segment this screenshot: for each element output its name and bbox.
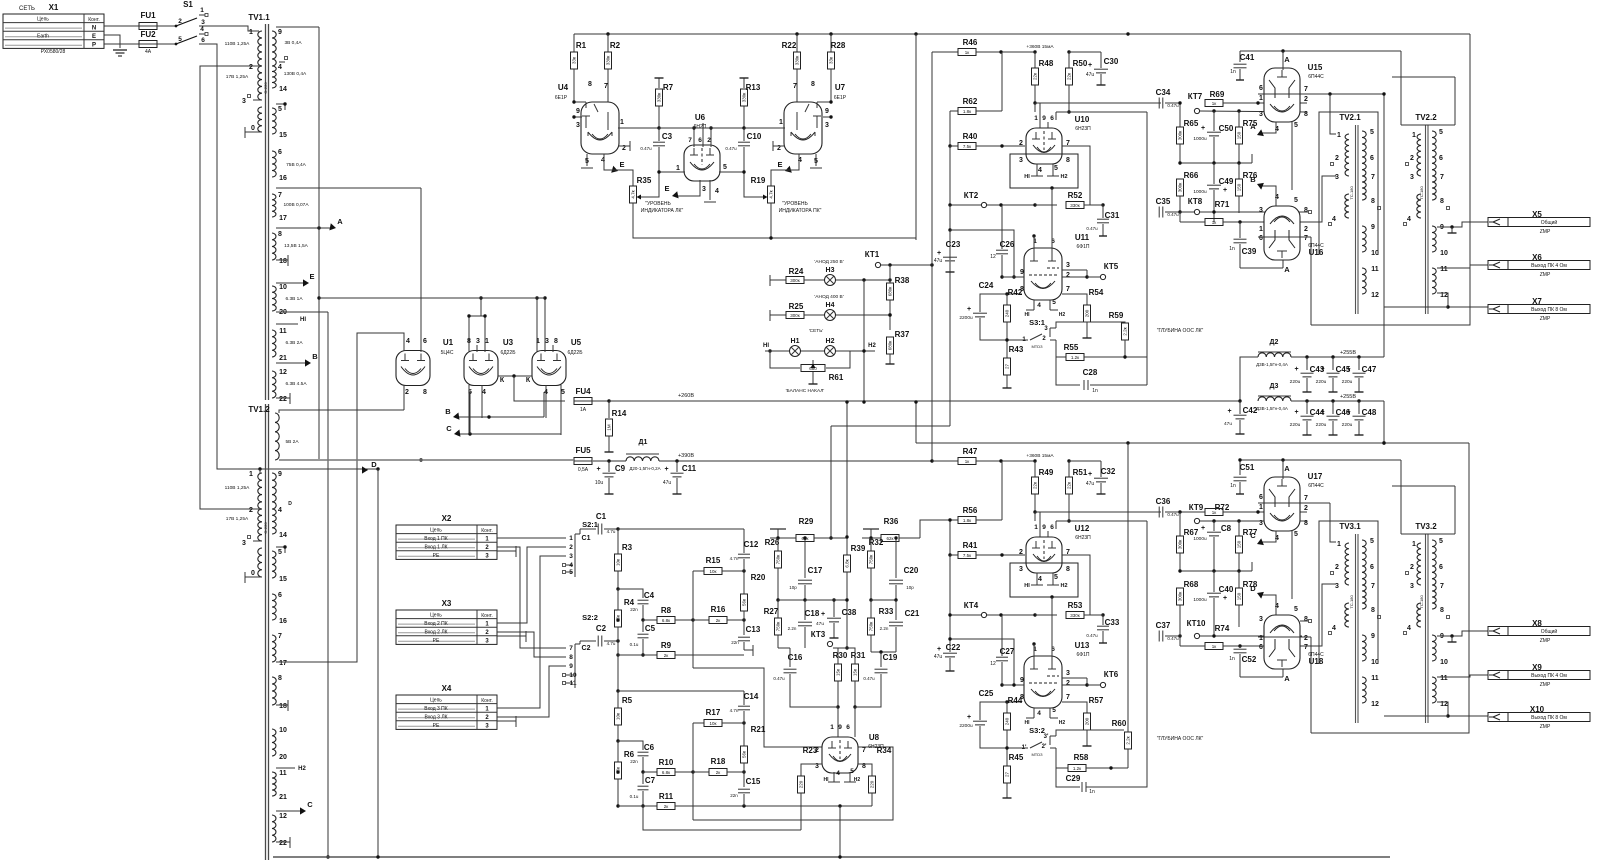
svg-text:R40: R40 xyxy=(963,132,978,141)
svg-text:17В 1,25А: 17В 1,25А xyxy=(226,74,249,80)
svg-text:C48: C48 xyxy=(1362,408,1377,417)
svg-text:7: 7 xyxy=(278,633,282,640)
svg-text:16: 16 xyxy=(279,618,287,625)
svg-text:ZМР: ZМР xyxy=(1540,316,1551,322)
svg-text:3: 3 xyxy=(1066,670,1070,677)
tube U18 xyxy=(1259,603,1324,683)
svg-text:N: N xyxy=(92,25,96,31)
svg-text:2: 2 xyxy=(1304,505,1308,512)
wire TV1.2 pin17 to U1 pin4 xyxy=(276,333,404,662)
svg-text:КТ1: КТ1 xyxy=(865,250,880,259)
transformer TV1.2 secondary 11-21 xyxy=(272,766,306,801)
svg-text:1: 1 xyxy=(676,165,680,172)
resistor R60 xyxy=(1095,719,1132,768)
heater box U12 xyxy=(1010,563,1078,615)
wire U3 plate rails xyxy=(467,296,486,352)
svg-text:8: 8 xyxy=(1066,157,1070,164)
wire C38 row xyxy=(805,598,849,601)
svg-text:Вход 3 ЛК: Вход 3 ЛК xyxy=(424,715,447,721)
svg-text:9: 9 xyxy=(278,29,282,36)
svg-text:КТ5: КТ5 xyxy=(1104,262,1119,271)
svg-text:ТС-180: ТС-180 xyxy=(1419,186,1424,200)
svg-text:1000u: 1000u xyxy=(1193,597,1207,603)
svg-text:R1: R1 xyxy=(576,41,587,50)
wire grid rail upper xyxy=(829,205,950,540)
resistor R13 xyxy=(740,78,761,128)
svg-text:7: 7 xyxy=(604,83,608,90)
transformer TV1.2 secondary 12-22 xyxy=(272,813,290,848)
svg-text:C11: C11 xyxy=(682,464,697,473)
transformer TV1.2 secondary 4-14 xyxy=(272,509,287,539)
svg-text:300к: 300к xyxy=(790,278,800,283)
svg-text:14: 14 xyxy=(279,86,287,93)
svg-text:22n: 22n xyxy=(731,640,739,645)
svg-text:680к: 680к xyxy=(888,287,893,297)
svg-text:A: A xyxy=(337,217,343,226)
wire TV3.2 loop xyxy=(1392,460,1455,534)
resistor R51 xyxy=(1066,459,1088,512)
svg-text:Выход ПК 4 Ом: Выход ПК 4 Ом xyxy=(1531,263,1567,269)
svg-text:6: 6 xyxy=(423,338,427,345)
svg-text:4: 4 xyxy=(1332,625,1336,632)
svg-text:17: 17 xyxy=(279,215,287,222)
resistor R68 xyxy=(1177,580,1199,621)
resistor R66 xyxy=(1177,171,1199,212)
node A arrow xyxy=(276,217,343,230)
svg-text:Н2: Н2 xyxy=(1060,583,1067,589)
svg-text:8: 8 xyxy=(1304,616,1308,623)
svg-text:0.47u: 0.47u xyxy=(1086,633,1098,638)
resistor R6 xyxy=(615,741,635,808)
svg-text:3: 3 xyxy=(569,553,573,560)
svg-text:E: E xyxy=(777,160,782,169)
tube U7 magic eye xyxy=(777,81,847,165)
svg-text:A: A xyxy=(1284,464,1290,473)
svg-text:1: 1 xyxy=(779,119,783,126)
svg-text:КТ10: КТ10 xyxy=(1187,619,1206,628)
svg-text:6: 6 xyxy=(1370,155,1374,162)
wire U8 cathode to bus xyxy=(838,806,841,859)
svg-text:0: 0 xyxy=(251,125,255,132)
svg-text:О-220: О-220 xyxy=(263,82,268,94)
svg-text:6: 6 xyxy=(1439,564,1443,571)
svg-text:R9: R9 xyxy=(661,641,672,650)
svg-text:R6: R6 xyxy=(624,750,635,759)
svg-text:6.8к: 6.8к xyxy=(662,618,670,623)
connector X6 xyxy=(1488,253,1590,278)
label glubina OOS ch2 xyxy=(1157,736,1204,742)
svg-text:'СЕТЬ': 'СЕТЬ' xyxy=(809,328,824,334)
svg-text:1000u: 1000u xyxy=(1193,536,1207,542)
svg-text:C36: C36 xyxy=(1156,497,1171,506)
svg-text:C: C xyxy=(1250,531,1256,540)
wire bottom bus xyxy=(273,856,1390,858)
svg-text:300к: 300к xyxy=(790,313,800,318)
capacitor C44 xyxy=(1290,401,1325,435)
tube U16 xyxy=(1259,194,1324,274)
resistor R17 xyxy=(693,708,746,727)
svg-text:1000u: 1000u xyxy=(1193,189,1207,195)
svg-text:10p: 10p xyxy=(906,585,914,590)
transformer TV1.1 secondary 9-4 xyxy=(272,27,319,71)
wire U15 pin1 xyxy=(1257,93,1259,95)
resistor R67 xyxy=(1177,512,1199,571)
transformer TV1.1 secondary 5-15 xyxy=(272,102,287,139)
connector X9 xyxy=(1488,663,1590,688)
wire U6 pins xyxy=(659,123,744,202)
svg-text:3: 3 xyxy=(702,186,706,193)
resistor R72 xyxy=(1178,503,1307,516)
svg-text:C20: C20 xyxy=(904,566,919,575)
svg-text:РХ0580/28: РХ0580/28 xyxy=(41,49,66,55)
svg-text:2к: 2к xyxy=(664,804,669,809)
svg-text:4: 4 xyxy=(836,770,840,777)
wire U8 heater mid xyxy=(828,772,856,782)
wire tone out ch1 xyxy=(693,571,822,747)
svg-text:6.3В 4.5А: 6.3В 4.5А xyxy=(285,381,307,387)
svg-text:C40: C40 xyxy=(1219,585,1234,594)
wire U16 pin4 B arrow xyxy=(1250,175,1276,206)
wire U16 pin8 sq xyxy=(1300,211,1312,214)
transformer TV1.1 secondary 11-21 xyxy=(272,328,303,362)
svg-text:0,5А: 0,5А xyxy=(578,467,589,473)
svg-text:R27: R27 xyxy=(764,607,779,616)
resistor R65 xyxy=(1177,101,1199,163)
wire X3-2 to S2:2 xyxy=(497,632,566,657)
svg-text:R11: R11 xyxy=(659,792,674,801)
svg-text:0.1u: 0.1u xyxy=(630,794,639,799)
capacitor C15 xyxy=(730,772,761,806)
svg-text:2: 2 xyxy=(1304,96,1308,103)
svg-text:B: B xyxy=(445,407,451,416)
svg-text:P: P xyxy=(92,43,96,49)
svg-text:18: 18 xyxy=(279,703,287,710)
capacitor C37 xyxy=(1156,621,1182,642)
tube U13 xyxy=(1020,641,1090,726)
capacitor C43 xyxy=(1290,357,1325,392)
svg-text:22: 22 xyxy=(279,840,287,847)
wire U3 U5 cathodes xyxy=(498,374,565,401)
svg-text:+: + xyxy=(1320,409,1324,416)
svg-text:Вход 2 ЛК: Вход 2 ЛК xyxy=(424,630,447,636)
svg-text:7: 7 xyxy=(1304,86,1308,93)
svg-text:6: 6 xyxy=(1050,524,1054,531)
svg-text:R21: R21 xyxy=(751,725,766,734)
svg-text:C1: C1 xyxy=(596,512,607,521)
capacitor C2 xyxy=(596,624,620,647)
svg-text:R10: R10 xyxy=(659,758,674,767)
svg-text:R22: R22 xyxy=(782,41,797,50)
svg-text:7: 7 xyxy=(569,645,573,652)
svg-text:47u: 47u xyxy=(1086,481,1095,487)
svg-text:27: 27 xyxy=(1005,772,1010,778)
wire KT7 row xyxy=(1200,109,1307,112)
wire tone top ch1 xyxy=(618,529,744,553)
svg-text:1: 1 xyxy=(485,338,489,345)
terminal KT4 xyxy=(948,601,1036,618)
terminal KT3 xyxy=(811,630,849,650)
svg-text:Вход 1 ЛК: Вход 1 ЛК xyxy=(424,545,447,551)
svg-text:6: 6 xyxy=(278,149,282,156)
fuse FU1 xyxy=(139,11,157,30)
svg-text:C19: C19 xyxy=(883,653,898,662)
resistor R31 xyxy=(847,648,866,709)
svg-text:О-220: О-220 xyxy=(263,522,268,534)
resistor R50 xyxy=(1066,50,1088,103)
svg-text:+: + xyxy=(1320,366,1324,373)
capacitor C25 xyxy=(959,689,1007,748)
resistor R1 xyxy=(571,34,587,102)
wire TV1.1 pin2 to TV1.2 pin2 xyxy=(200,66,259,509)
svg-text:7: 7 xyxy=(793,83,797,90)
node E arrow U6 xyxy=(664,184,678,198)
svg-text:E: E xyxy=(619,160,624,169)
capacitor C32 xyxy=(1069,461,1116,494)
capacitor C11 xyxy=(663,453,697,494)
resistor R32 xyxy=(868,538,884,600)
svg-text:КТ8: КТ8 xyxy=(1188,197,1203,206)
svg-text:3: 3 xyxy=(1259,111,1263,118)
svg-text:22к: 22к xyxy=(1067,482,1072,489)
svg-text:1: 1 xyxy=(1259,635,1263,642)
wire FU4 row xyxy=(592,399,1240,402)
svg-text:X3: X3 xyxy=(442,599,452,608)
svg-text:16: 16 xyxy=(279,175,287,182)
svg-text:10к: 10к xyxy=(616,559,621,566)
resistor R5 xyxy=(615,691,633,743)
connector X4 xyxy=(396,684,497,730)
svg-text:R37: R37 xyxy=(895,330,910,339)
transformer TV1.2 5V winding xyxy=(275,410,404,460)
resistor R11 xyxy=(618,792,872,810)
resistor R77 xyxy=(1236,521,1258,571)
svg-text:1к: 1к xyxy=(965,50,970,55)
resistor R22 xyxy=(782,34,801,130)
svg-text:Д3: Д3 xyxy=(1270,383,1279,390)
svg-text:R53: R53 xyxy=(1068,601,1083,610)
svg-text:240: 240 xyxy=(1005,717,1010,725)
wire U17 pin4 C arrow xyxy=(1250,531,1276,545)
svg-text:U4: U4 xyxy=(558,83,569,92)
svg-text:21: 21 xyxy=(279,355,287,362)
svg-text:330к: 330к xyxy=(1070,203,1080,208)
svg-text:R48: R48 xyxy=(1039,59,1054,68)
svg-text:+: + xyxy=(937,250,941,257)
svg-text:200: 200 xyxy=(1085,309,1090,317)
transformer TV2.2 xyxy=(1404,113,1450,314)
wire 255 to lower bus xyxy=(1382,401,1385,445)
wire TV2.2 loop xyxy=(1392,51,1455,125)
tube U1 xyxy=(396,338,454,396)
svg-text:4: 4 xyxy=(1407,216,1411,223)
resistor R78 xyxy=(1236,571,1258,627)
wire rail x319 xyxy=(317,27,320,459)
svg-text:6: 6 xyxy=(278,592,282,599)
tube U11 xyxy=(1020,233,1090,318)
resistor R9 xyxy=(618,641,744,659)
wire FU2 to S1 xyxy=(157,43,176,45)
svg-text:3: 3 xyxy=(201,19,205,26)
svg-text:1n: 1n xyxy=(1230,483,1236,489)
resistor R47 xyxy=(932,447,1035,465)
svg-text:R54: R54 xyxy=(1089,288,1104,297)
svg-text:R39: R39 xyxy=(851,544,866,553)
svg-text:+: + xyxy=(1346,366,1350,373)
transformer TV1.1 primary winding 2-3 xyxy=(226,66,268,105)
transformer TV1.1 core xyxy=(248,13,270,860)
capacitor C23 xyxy=(934,228,961,272)
svg-text:9: 9 xyxy=(1042,524,1046,531)
svg-text:X1: X1 xyxy=(49,3,59,12)
svg-text:330к: 330к xyxy=(657,93,662,103)
svg-text:4.7к: 4.7к xyxy=(769,190,774,198)
svg-text:330к: 330к xyxy=(1070,613,1080,618)
svg-text:+: + xyxy=(821,611,825,618)
svg-text:C52: C52 xyxy=(1242,655,1257,664)
connector X5 xyxy=(1488,210,1590,235)
fuse FU4 xyxy=(574,387,592,413)
svg-text:750к: 750к xyxy=(869,555,874,565)
svg-text:2: 2 xyxy=(249,64,253,71)
svg-text:0.47u: 0.47u xyxy=(1167,103,1179,108)
svg-text:R15: R15 xyxy=(706,556,721,565)
wire U15 pin7 row xyxy=(1258,51,1384,96)
capacitor C38 xyxy=(816,598,857,638)
wire R60 top xyxy=(1127,443,1129,732)
svg-text:4: 4 xyxy=(278,507,282,514)
capacitor C31 xyxy=(1086,205,1120,236)
capacitor C45 xyxy=(1316,357,1351,392)
capacitor C22 xyxy=(934,640,961,671)
resistor R2 xyxy=(605,34,621,130)
resistor R41 xyxy=(948,541,1025,615)
svg-text:10p: 10p xyxy=(789,585,797,590)
svg-text:"ГЛУБИНА ООС ЛК": "ГЛУБИНА ООС ЛК" xyxy=(1157,736,1204,742)
wire X9 feed xyxy=(1437,675,1488,677)
svg-text:3: 3 xyxy=(1259,207,1263,214)
svg-text:R55: R55 xyxy=(1064,343,1079,352)
svg-text:9: 9 xyxy=(838,724,842,731)
capacitor C35 xyxy=(1156,197,1182,218)
svg-text:R61: R61 xyxy=(829,373,844,382)
svg-text:1к: 1к xyxy=(1212,220,1217,225)
svg-text:+255В: +255В xyxy=(1340,394,1356,400)
svg-text:Вход 3 ПК: Вход 3 ПК xyxy=(424,706,447,712)
svg-text:"УРОВЕНЬ: "УРОВЕНЬ xyxy=(782,201,808,207)
svg-text:300к: 300к xyxy=(1178,540,1183,550)
svg-text:R49: R49 xyxy=(1039,468,1054,477)
svg-text:9: 9 xyxy=(1371,224,1375,231)
svg-text:3: 3 xyxy=(1259,616,1263,623)
svg-text:150: 150 xyxy=(1237,183,1242,191)
wire top bus xyxy=(574,32,1470,35)
svg-text:ИНДИКАТОРА ПК": ИНДИКАТОРА ПК" xyxy=(779,208,822,214)
svg-text:2: 2 xyxy=(1066,680,1070,687)
svg-text:12: 12 xyxy=(1371,701,1379,708)
svg-text:1М: 1М xyxy=(607,424,612,431)
wire pin6 row ch1 xyxy=(1056,103,1147,120)
resistor R40 xyxy=(948,132,1025,205)
svg-text:R56: R56 xyxy=(963,506,978,515)
svg-text:TV3.2: TV3.2 xyxy=(1415,522,1437,531)
svg-text:3: 3 xyxy=(1019,566,1023,573)
ground mains earth xyxy=(113,50,127,56)
svg-text:C3: C3 xyxy=(662,132,673,141)
svg-text:Выход ПК 8 Ом: Выход ПК 8 Ом xyxy=(1531,307,1567,313)
wire feedback ch1 xyxy=(1146,112,1148,385)
svg-text:6Ф1П: 6Ф1П xyxy=(1077,652,1090,658)
resistor R30 xyxy=(833,648,848,709)
resistor R18 xyxy=(693,757,746,776)
capacitor C20 xyxy=(889,536,919,600)
svg-text:8: 8 xyxy=(1371,198,1375,205)
wire lower top bus xyxy=(916,441,1469,444)
svg-text:10u: 10u xyxy=(595,480,604,486)
svg-text:6: 6 xyxy=(1439,155,1443,162)
resistor R53 xyxy=(1035,601,1105,619)
svg-text:C5: C5 xyxy=(645,624,656,633)
svg-text:Д20-1,5Гн-0,2А: Д20-1,5Гн-0,2А xyxy=(629,466,660,471)
wire pin9 feed ch1 xyxy=(950,230,1016,279)
svg-text:7: 7 xyxy=(1304,495,1308,502)
svg-text:C38: C38 xyxy=(842,608,857,617)
svg-text:0.47u: 0.47u xyxy=(725,146,737,151)
resistor R20 xyxy=(741,571,766,620)
wire pin9 feed ch2 xyxy=(948,637,1015,686)
svg-text:4.7n: 4.7n xyxy=(730,708,739,713)
svg-text:9: 9 xyxy=(1020,269,1024,276)
svg-text:КТ9: КТ9 xyxy=(1189,503,1204,512)
inductor D2 xyxy=(1238,339,1384,403)
svg-text:47u: 47u xyxy=(663,480,672,486)
terminal KT8 xyxy=(1180,197,1203,215)
svg-text:11: 11 xyxy=(279,770,287,777)
svg-text:E: E xyxy=(92,34,96,40)
svg-text:РЕ: РЕ xyxy=(433,723,440,729)
svg-text:S2:1: S2:1 xyxy=(582,520,598,529)
svg-text:18: 18 xyxy=(279,258,287,265)
svg-text:2: 2 xyxy=(1335,155,1339,162)
wire X6 feed xyxy=(1437,265,1488,268)
svg-text:11: 11 xyxy=(1371,675,1379,682)
svg-text:TV2.2: TV2.2 xyxy=(1415,113,1437,122)
svg-text:17: 17 xyxy=(279,660,287,667)
svg-text:Вход 1 ПК: Вход 1 ПК xyxy=(424,536,447,542)
svg-text:R38: R38 xyxy=(895,276,910,285)
svg-text:1.8к: 1.8к xyxy=(963,109,971,114)
svg-text:1: 1 xyxy=(1412,541,1416,548)
wire tone top ch2 xyxy=(616,641,744,705)
svg-text:Конт.: Конт. xyxy=(481,698,493,704)
svg-text:R29: R29 xyxy=(799,517,814,526)
terminal KT6 xyxy=(1100,670,1118,688)
transformer TV1.2 primary 1-2 xyxy=(225,471,262,514)
label +260V xyxy=(678,393,694,399)
wire mid bus ch2 xyxy=(1178,562,1252,573)
wire X1-N to FU1 xyxy=(104,25,139,27)
svg-text:10: 10 xyxy=(1440,659,1448,666)
wire U12 pin7 out xyxy=(1062,555,1090,615)
svg-text:22n: 22n xyxy=(630,607,638,612)
terminal KT7 xyxy=(1188,92,1203,114)
svg-text:8: 8 xyxy=(1440,198,1444,205)
svg-text:8: 8 xyxy=(554,338,558,345)
wire X3-1 to S2:1 xyxy=(497,547,566,623)
svg-text:6Е1Р: 6Е1Р xyxy=(834,95,847,101)
svg-text:R47: R47 xyxy=(963,447,978,456)
svg-text:150: 150 xyxy=(1237,540,1242,548)
svg-text:+: + xyxy=(1201,125,1205,132)
